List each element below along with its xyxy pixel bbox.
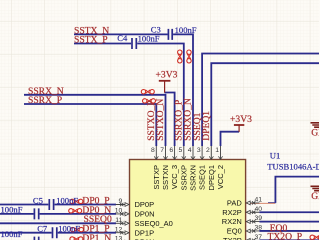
svg-text:5: 5 [179,147,183,154]
svg-text:6: 6 [169,147,173,154]
svg-text:100nF: 100nF [1,205,23,215]
svg-text:3: 3 [197,147,201,154]
svg-text:RX2N: RX2N [222,217,242,226]
svg-text:SSEQ0_A0: SSEQ0_A0 [135,219,173,228]
svg-text:SSRXN: SSRXN [189,165,198,191]
svg-text:C7: C7 [37,224,48,234]
svg-text:40: 40 [255,206,263,213]
svg-text:+3V3: +3V3 [156,69,178,80]
svg-text:EQ0: EQ0 [227,227,242,236]
svg-text:100nF: 100nF [58,224,80,234]
svg-text:DP0P: DP0P [135,200,155,209]
svg-text:8: 8 [151,147,155,154]
svg-text:38: 38 [255,224,263,231]
svg-text:TX2O_P: TX2O_P [268,232,303,240]
svg-text:SSRXP: SSRXP [179,165,188,190]
svg-text:SSEQ1: SSEQ1 [198,165,207,190]
svg-text:100nF: 100nF [138,34,160,44]
svg-text:41: 41 [255,196,263,203]
svg-text:PAD: PAD [227,199,242,208]
svg-text:12: 12 [115,226,123,233]
svg-text:9: 9 [119,198,123,205]
svg-text:1: 1 [215,147,219,154]
svg-text:+3V3: +3V3 [230,114,252,125]
svg-text:SSTXN: SSTXN [161,165,170,190]
svg-text:SSTX_P: SSTX_P [74,35,108,46]
svg-text:C5: C5 [33,195,43,205]
svg-text:RX2P: RX2P [222,208,242,217]
svg-text:39: 39 [255,215,263,222]
svg-text:DPEQ1: DPEQ1 [207,165,216,190]
svg-text:37: 37 [255,234,263,240]
svg-text:VCC_2: VCC_2 [216,165,225,189]
svg-text:GND: GND [311,127,319,138]
svg-text:100nF: 100nF [56,195,78,205]
svg-text:DP0N: DP0N [135,210,155,219]
svg-text:13: 13 [115,236,123,240]
svg-text:2: 2 [206,147,210,154]
svg-text:10: 10 [115,208,123,215]
svg-text:U1: U1 [270,150,281,160]
svg-text:SSRX_P: SSRX_P [28,95,62,106]
svg-text:GND: GND [311,191,319,202]
svg-text:DPEQ1: DPEQ1 [201,111,212,141]
svg-text:100nF: 100nF [1,229,23,239]
svg-text:4: 4 [188,147,192,154]
svg-text:VCC_3: VCC_3 [170,165,179,189]
svg-text:TUSB1046A-DCI: TUSB1046A-DCI [267,161,319,171]
svg-text:DP1P: DP1P [135,228,155,237]
svg-text:100nF: 100nF [175,25,197,35]
svg-text:DP1_N: DP1_N [82,233,111,240]
svg-text:SSTXP: SSTXP [152,165,161,190]
svg-text:11: 11 [115,217,122,224]
svg-text:7: 7 [160,147,164,154]
svg-text:TX2P: TX2P [223,236,242,240]
svg-text:SSTXO_N: SSTXO_N [155,99,166,141]
svg-text:C4: C4 [117,33,128,43]
